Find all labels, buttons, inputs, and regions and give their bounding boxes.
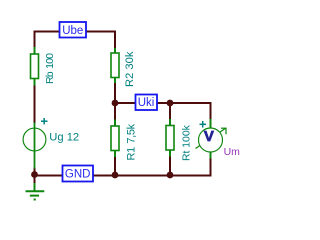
junction node at R1 bottom <box>112 172 119 179</box>
svg-text:GND: GND <box>65 168 91 180</box>
svg-text:R2 30k: R2 30k <box>124 51 136 87</box>
svg-text:Rt 100k: Rt 100k <box>182 124 193 161</box>
wire top-left horizontal <box>34 31 61 33</box>
wire Rt vertical upper <box>169 102 171 120</box>
resistor R2 <box>111 48 119 83</box>
label R2 30k <box>124 51 136 87</box>
resistor R1 <box>111 120 119 158</box>
wire left vertical upper <box>34 31 36 49</box>
junction node at Rt bottom <box>167 172 174 179</box>
node GND <box>63 166 94 182</box>
wire Rt vertical lower <box>169 156 171 177</box>
resistor Rt <box>166 119 174 157</box>
svg-text:Ug 12: Ug 12 <box>49 132 79 144</box>
junction node at ground <box>31 171 38 178</box>
voltmeter V <box>199 119 223 159</box>
node Ube <box>60 22 87 38</box>
wire node to R1 top <box>114 102 116 121</box>
svg-text:Uki: Uki <box>138 97 155 109</box>
source Ug <box>23 123 46 169</box>
ground <box>26 183 45 200</box>
wire ground stub <box>34 174 36 184</box>
wire meter vertical lower <box>210 158 212 177</box>
wire bottom right <box>92 175 212 177</box>
label Um <box>224 146 241 158</box>
arrow of voltmeter <box>196 128 227 149</box>
plus sign of voltmeter <box>200 121 207 128</box>
wire R2 bottom to node <box>114 82 116 105</box>
wire bottom left <box>34 175 64 177</box>
label R1 7,5k <box>126 123 138 160</box>
wire left vertical lower <box>34 168 36 177</box>
label Rb 100 <box>44 53 56 84</box>
svg-text:Um: Um <box>224 146 241 158</box>
plus sign of Ug <box>41 118 48 124</box>
svg-text:V: V <box>204 128 214 145</box>
wire top-right horizontal <box>85 31 116 33</box>
svg-text:R1 7,5k: R1 7,5k <box>126 123 138 160</box>
label Rt 100k <box>182 124 193 161</box>
svg-text:Rb 100: Rb 100 <box>44 53 56 84</box>
svg-text:Ube: Ube <box>62 25 83 37</box>
junction node at R2/R1/Uki <box>112 100 119 107</box>
wire left vertical middle <box>34 84 36 124</box>
wire mid horizontal right <box>156 102 212 104</box>
node Uki <box>136 95 158 111</box>
wire R1 bottom <box>114 156 116 177</box>
wire mid horizontal left <box>114 102 136 104</box>
resistor Rb <box>31 47 39 86</box>
wire right vertical upper <box>114 31 116 50</box>
label Ug 12 <box>49 132 79 144</box>
junction node at Rt top <box>167 100 174 107</box>
wire meter vertical upper <box>210 102 212 120</box>
